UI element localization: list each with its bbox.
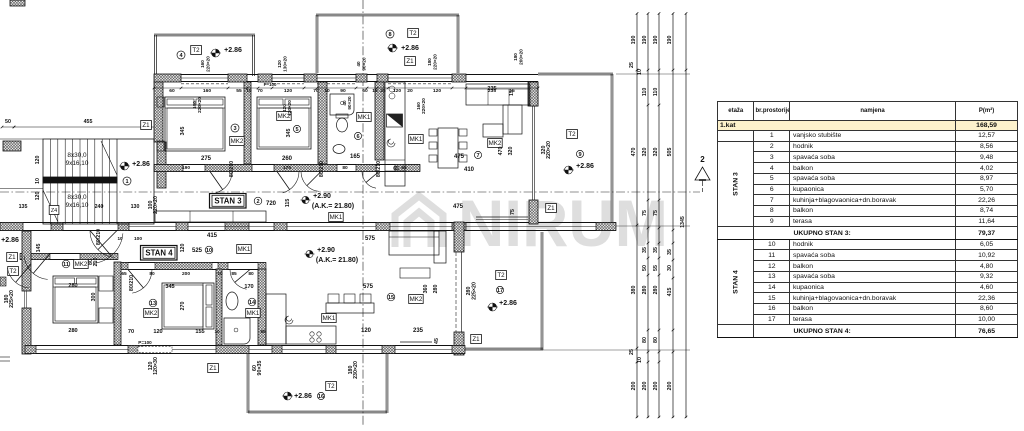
svg-text:135: 135 [19, 204, 28, 210]
dim row stan4 rooms [121, 271, 254, 277]
room 13 MK2 [144, 309, 159, 318]
svg-text:190: 190 [667, 36, 673, 45]
room 11 MK2 [74, 260, 89, 269]
wall stub stairs top-left [3, 141, 21, 151]
dim 345 room3 [180, 127, 186, 136]
svg-text:120×30: 120×30 [153, 357, 159, 375]
living MK2 label [488, 139, 503, 148]
svg-text:+2.90: +2.90 [313, 193, 331, 200]
exterior wall top [154, 74, 538, 84]
svg-text:11: 11 [63, 262, 69, 268]
svg-text:+2.86: +2.86 [132, 161, 150, 168]
door kitchen7 [362, 172, 379, 189]
wall bath-kitchen [375, 82, 384, 160]
wall bedrooms/corridor stan3 [154, 165, 420, 172]
svg-text:415: 415 [667, 288, 673, 297]
bed room 11 [53, 276, 98, 323]
svg-text:180: 180 [513, 53, 518, 61]
svg-text:Z1: Z1 [406, 58, 414, 65]
svg-text:30: 30 [667, 265, 673, 271]
coffee table stan3 [483, 124, 503, 137]
svg-text:470: 470 [498, 147, 504, 156]
svg-text:75: 75 [653, 210, 659, 216]
door room5 [277, 172, 299, 193]
svg-text:10: 10 [246, 88, 252, 94]
left wall stub [0, 277, 6, 286]
svg-text:720: 720 [266, 201, 277, 207]
kitchen MK1 stan4 [322, 314, 337, 323]
svg-text:80/210: 80/210 [376, 161, 382, 177]
svg-text:165: 165 [350, 154, 361, 160]
svg-text:80/210: 80/210 [129, 275, 135, 291]
svg-text:8x30,0: 8x30,0 [67, 152, 87, 159]
svg-text:20: 20 [407, 88, 413, 94]
svg-text:MK1: MK1 [410, 136, 423, 143]
balcony 17 labels [487, 271, 517, 312]
wall stub top-left [10, 0, 25, 6]
left label Z1 [7, 253, 18, 262]
svg-text:MK2: MK2 [410, 296, 423, 303]
door room3 [210, 172, 232, 193]
door bath6 [301, 172, 321, 192]
svg-text:+2.86: +2.86 [401, 45, 419, 52]
svg-text:130×20: 130×20 [283, 56, 288, 72]
svg-text:115: 115 [285, 199, 291, 208]
exterior wall left stan4 [22, 231, 31, 354]
svg-text:10: 10 [35, 178, 41, 184]
svg-text:1: 1 [125, 179, 128, 185]
stair hall lines left [0, 139, 43, 189]
svg-text:+2.86: +2.86 [224, 47, 242, 54]
dim 475 dining [454, 154, 465, 160]
left lines bottom [0, 357, 10, 361]
room 14 MK1 [246, 309, 261, 318]
exterior wall bottom [25, 346, 465, 354]
svg-text:190: 190 [631, 36, 637, 45]
left label T2 [8, 267, 19, 276]
svg-text:80: 80 [342, 165, 348, 171]
kitchen stan3 counter [385, 82, 405, 186]
svg-text:160: 160 [200, 60, 205, 68]
label P=100 top [264, 82, 277, 87]
door room11 [24, 254, 50, 280]
svg-text:190: 190 [182, 165, 190, 171]
svg-text:MK1: MK1 [323, 315, 336, 322]
svg-text:35: 35 [642, 247, 648, 253]
rot dim terrace9wall [541, 141, 552, 159]
dim 575 a [365, 236, 376, 242]
toilet room6 [336, 114, 348, 132]
svg-text:345: 345 [165, 284, 174, 290]
svg-text:+2.90: +2.90 [317, 247, 335, 254]
dim 345 room5 [286, 129, 292, 138]
stairs dims left [35, 156, 41, 201]
svg-text:120: 120 [284, 88, 292, 94]
svg-text:200: 200 [182, 271, 190, 277]
balcony17 table line [400, 341, 432, 343]
svg-text:10: 10 [206, 248, 212, 254]
svg-text:60: 60 [260, 329, 266, 334]
exterior wall left stan3 [154, 82, 166, 188]
wall rooms3-5 [244, 82, 251, 164]
kitchen stan4 counter [266, 294, 336, 344]
svg-text:(A.K.= 21.80): (A.K.= 21.80) [312, 203, 354, 210]
window arc left [7, 264, 31, 288]
svg-text:320: 320 [653, 148, 659, 157]
svg-text:MK1: MK1 [238, 246, 251, 253]
dims living stan4 [361, 282, 478, 344]
terrace 4 outline [154, 34, 255, 76]
shower room6 [330, 94, 354, 115]
svg-text:230×20: 230×20 [353, 361, 359, 379]
bed room 5 [257, 97, 311, 149]
svg-text:3: 3 [233, 126, 236, 132]
room 15 MK2 [409, 295, 424, 304]
kitchen MK1 stan3 [409, 135, 424, 144]
terrace 8 outline [316, 14, 459, 73]
mid building wall [0, 223, 616, 231]
svg-text:240: 240 [95, 204, 104, 210]
svg-text:110: 110 [642, 88, 648, 97]
svg-text:MK2: MK2 [145, 310, 158, 317]
dining table stan4 [326, 294, 374, 313]
wall living/terrace9 [529, 82, 538, 224]
svg-text:80: 80 [248, 271, 254, 277]
svg-text:8: 8 [388, 32, 391, 38]
svg-text:Z1: Z1 [547, 205, 555, 212]
svg-text:25: 25 [629, 62, 635, 68]
svg-text:9x16,10: 9x16,10 [66, 160, 89, 167]
svg-text:MK1: MK1 [330, 214, 343, 221]
svg-text:120: 120 [361, 328, 372, 334]
svg-text:+2.86: +2.86 [1, 237, 19, 244]
dim 235 sofa [487, 86, 515, 96]
svg-text:80: 80 [653, 337, 659, 343]
dim 410 dining [464, 167, 475, 173]
corridor MK1 stan4 [237, 245, 252, 254]
stairs level +2.86 [119, 161, 150, 170]
sofa stan3 [466, 84, 530, 134]
door label Z1 terrace 8 [405, 57, 416, 66]
dining table stan3 [429, 128, 467, 168]
room 3 number [231, 124, 239, 132]
svg-text:220×20: 220×20 [433, 54, 438, 70]
right dimension chains [629, 12, 687, 418]
svg-text:+2.86: +2.86 [576, 163, 594, 170]
dim 575 b [363, 284, 374, 290]
room 6 MK1 [357, 113, 372, 122]
staircase text 1 [66, 152, 89, 167]
svg-text:260: 260 [282, 156, 293, 162]
svg-text:65: 65 [393, 166, 399, 172]
svg-text:280: 280 [68, 328, 77, 334]
svg-text:225×20: 225×20 [472, 282, 478, 300]
svg-text:110: 110 [653, 88, 659, 97]
rot dim entry [88, 258, 99, 267]
corridor MK1 stan3 [329, 213, 344, 222]
svg-text:155: 155 [195, 329, 204, 335]
svg-text:345: 345 [286, 129, 292, 138]
area table [717, 101, 1018, 338]
svg-text:80/210: 80/210 [96, 229, 102, 245]
svg-text:85: 85 [231, 271, 237, 277]
window label Z4 [49, 206, 59, 215]
svg-text:45: 45 [434, 338, 440, 344]
svg-text:P=100: P=100 [264, 82, 277, 87]
svg-text:200: 200 [631, 382, 637, 391]
dims 470/320 living [498, 147, 514, 156]
svg-text:15: 15 [388, 295, 394, 301]
section line horizontal [0, 191, 700, 193]
door room14 [230, 270, 250, 290]
svg-text:Z1: Z1 [8, 254, 16, 261]
svg-text:8x30,0: 8x30,0 [67, 194, 87, 201]
svg-text:505: 505 [667, 148, 673, 157]
svg-text:145: 145 [36, 244, 42, 253]
svg-text:175: 175 [283, 165, 291, 171]
sink room6 [333, 145, 345, 154]
svg-text:575: 575 [365, 236, 376, 242]
door hall stan3 [90, 231, 117, 258]
bed room 3 [165, 97, 225, 151]
dim row stan4 bottom [128, 329, 266, 335]
svg-text:60: 60 [169, 88, 175, 94]
svg-text:130: 130 [131, 204, 140, 210]
terrace 4 labels [177, 46, 242, 60]
svg-text:120: 120 [433, 88, 441, 94]
svg-text:220×20: 220×20 [197, 97, 202, 113]
wall rooms11-13 [114, 262, 121, 345]
room 3 MK2 [230, 137, 245, 146]
level +2.90 stan4 [304, 247, 358, 264]
watermark NIRUM [395, 186, 668, 260]
svg-text:17: 17 [497, 288, 503, 294]
room 2 number [254, 197, 262, 205]
svg-text:380: 380 [631, 286, 637, 295]
dims room 11 [68, 283, 97, 334]
svg-text:75: 75 [510, 209, 516, 215]
svg-text:575: 575 [363, 284, 374, 290]
svg-text:120×20: 120×20 [287, 100, 292, 116]
svg-text:50: 50 [5, 119, 11, 125]
svg-text:6: 6 [356, 134, 359, 140]
svg-text:475: 475 [453, 204, 464, 210]
svg-text:Z1: Z1 [142, 122, 150, 129]
svg-text:35: 35 [653, 247, 659, 253]
svg-text:220×20: 220×20 [206, 56, 211, 72]
window label Z1 upper-left [141, 121, 152, 130]
svg-text:280: 280 [653, 286, 659, 295]
svg-text:120: 120 [35, 156, 41, 165]
nightstand room3 L [157, 97, 164, 151]
svg-text:200: 200 [642, 382, 648, 391]
svg-text:70: 70 [257, 88, 263, 94]
rot dims corridor doors [96, 229, 142, 245]
sofa stan4 [389, 231, 446, 278]
svg-text:9: 9 [578, 152, 581, 158]
label STAN 3 [210, 194, 247, 209]
svg-text:16: 16 [318, 394, 324, 400]
svg-text:10: 10 [324, 88, 330, 94]
room 5 number [293, 125, 300, 133]
svg-text:90×35: 90×35 [257, 361, 263, 376]
svg-text:55: 55 [653, 265, 659, 271]
terrace 16 labels [282, 382, 336, 401]
svg-text:70: 70 [128, 329, 134, 335]
shower room14 [224, 318, 250, 344]
svg-text:2: 2 [256, 199, 259, 205]
svg-text:190: 190 [653, 36, 659, 45]
svg-text:T2: T2 [568, 131, 576, 138]
svg-text:NIRUM: NIRUM [458, 186, 668, 260]
svg-text:MK1: MK1 [247, 310, 260, 317]
left level +2.86 [1, 237, 19, 244]
svg-text:200: 200 [667, 382, 673, 391]
door label Z1 balcony 17 [471, 335, 482, 344]
dim 135 [19, 204, 28, 210]
dim row corridor stan3 [182, 161, 407, 177]
svg-text:90: 90 [340, 88, 346, 94]
svg-text:T2: T2 [9, 268, 17, 275]
svg-text:2: 2 [700, 155, 705, 164]
svg-text:25: 25 [380, 88, 386, 94]
svg-text:470: 470 [631, 148, 637, 157]
svg-text:Z1: Z1 [209, 365, 217, 372]
svg-text:120: 120 [180, 244, 186, 253]
svg-text:120: 120 [153, 329, 162, 335]
dim 165 room6 [350, 154, 361, 160]
svg-text:235: 235 [488, 88, 496, 94]
svg-text:80/210: 80/210 [319, 161, 325, 177]
rot dims terrace4 [200, 54, 438, 72]
room 15 number [387, 293, 395, 301]
svg-text:360: 360 [423, 285, 429, 294]
room 7 number [474, 151, 481, 159]
svg-text:+2.86: +2.86 [499, 300, 517, 307]
room 13 number [149, 299, 157, 307]
door label Z1 terrace 9 [546, 204, 557, 213]
room 6 number [354, 132, 361, 140]
svg-text:90×20: 90×20 [362, 57, 367, 71]
wall corridor/room11 [20, 254, 118, 260]
svg-text:120: 120 [393, 88, 401, 94]
svg-text:55: 55 [236, 88, 242, 94]
svg-text:200×20: 200×20 [519, 49, 524, 65]
dims corridor stan4 [180, 233, 218, 254]
svg-text:345: 345 [180, 127, 186, 136]
svg-text:200: 200 [653, 382, 659, 391]
svg-text:Z1: Z1 [472, 336, 480, 343]
label Z1 bottom [208, 364, 219, 373]
svg-text:T2: T2 [409, 30, 417, 37]
rot dims terrace8 right [513, 49, 524, 65]
svg-text:270: 270 [180, 302, 186, 311]
svg-text:(A.K.= 21.80): (A.K.= 21.80) [316, 257, 358, 264]
svg-text:40: 40 [356, 61, 361, 67]
terrace 16 outline [247, 354, 388, 413]
svg-text:15: 15 [509, 88, 515, 94]
svg-text:100: 100 [134, 236, 142, 242]
room 14 number [248, 298, 256, 306]
door room13 [128, 270, 152, 294]
svg-text:455: 455 [84, 119, 93, 125]
svg-text:MK1: MK1 [358, 114, 371, 121]
svg-text:Z4: Z4 [51, 208, 57, 214]
svg-text:415: 415 [207, 233, 218, 239]
svg-text:10: 10 [214, 329, 220, 334]
wall room13-bath14 [216, 269, 222, 345]
svg-text:160: 160 [203, 88, 211, 94]
svg-text:P=100: P=100 [138, 340, 152, 345]
svg-text:15: 15 [372, 88, 378, 94]
dim 720 corridor [266, 199, 291, 208]
door opening P=100 bottom [138, 340, 172, 353]
svg-text:220×20: 220×20 [546, 141, 552, 159]
svg-text:190: 190 [642, 36, 648, 45]
svg-text:65: 65 [401, 165, 407, 171]
svg-text:9x16,10: 9x16,10 [66, 202, 89, 209]
svg-text:180: 180 [427, 58, 432, 66]
wall corner terrace9 [528, 82, 538, 106]
exterior wall right stan4 [454, 222, 464, 355]
terrace 9 outline [538, 73, 613, 228]
sink room14 [226, 292, 238, 310]
section line vertical [362, 0, 364, 426]
svg-text:120: 120 [35, 192, 41, 201]
svg-text:14: 14 [249, 300, 256, 306]
dim row top [153, 87, 540, 94]
svg-text:50: 50 [642, 265, 648, 271]
svg-text:320: 320 [508, 147, 514, 156]
svg-text:10: 10 [217, 271, 223, 277]
left dim 145 [36, 244, 42, 253]
dimension 50/455 upper-left [1, 119, 157, 128]
svg-text:225×20: 225×20 [9, 290, 15, 308]
staircase [43, 139, 154, 224]
svg-text:220×20: 220×20 [421, 98, 426, 114]
svg-text:280: 280 [642, 286, 648, 295]
svg-text:235: 235 [413, 328, 424, 334]
svg-text:475: 475 [454, 154, 465, 160]
window rot dims top [192, 96, 426, 116]
dim 260 room5 [282, 156, 293, 162]
stairs dims bottom [95, 196, 159, 214]
svg-text:280: 280 [433, 285, 439, 294]
svg-text:300: 300 [91, 293, 97, 302]
left rot dim [4, 290, 15, 308]
label STAN 4 [141, 246, 178, 261]
wall room5-bath [318, 82, 327, 164]
bed room 13 [162, 283, 214, 329]
svg-text:MK2: MK2 [231, 138, 244, 145]
svg-text:10: 10 [117, 236, 123, 241]
svg-text:7: 7 [476, 153, 479, 159]
wall corridor/rooms13-14 [118, 263, 266, 270]
room 11 number [62, 260, 70, 268]
svg-text:525: 525 [192, 248, 203, 254]
svg-text:13: 13 [150, 301, 156, 307]
rot dims bottom wall [148, 357, 359, 379]
terrace 9 labels [563, 130, 594, 175]
svg-text:75: 75 [642, 210, 648, 216]
dim 65 kitchen [393, 166, 399, 172]
svg-text:35: 35 [667, 249, 673, 255]
dim 275 room3 [201, 156, 212, 162]
svg-text:MK2: MK2 [75, 261, 88, 268]
tv line living [476, 217, 528, 220]
wall bath14-kitchen [258, 269, 266, 345]
svg-text:275: 275 [201, 156, 212, 162]
